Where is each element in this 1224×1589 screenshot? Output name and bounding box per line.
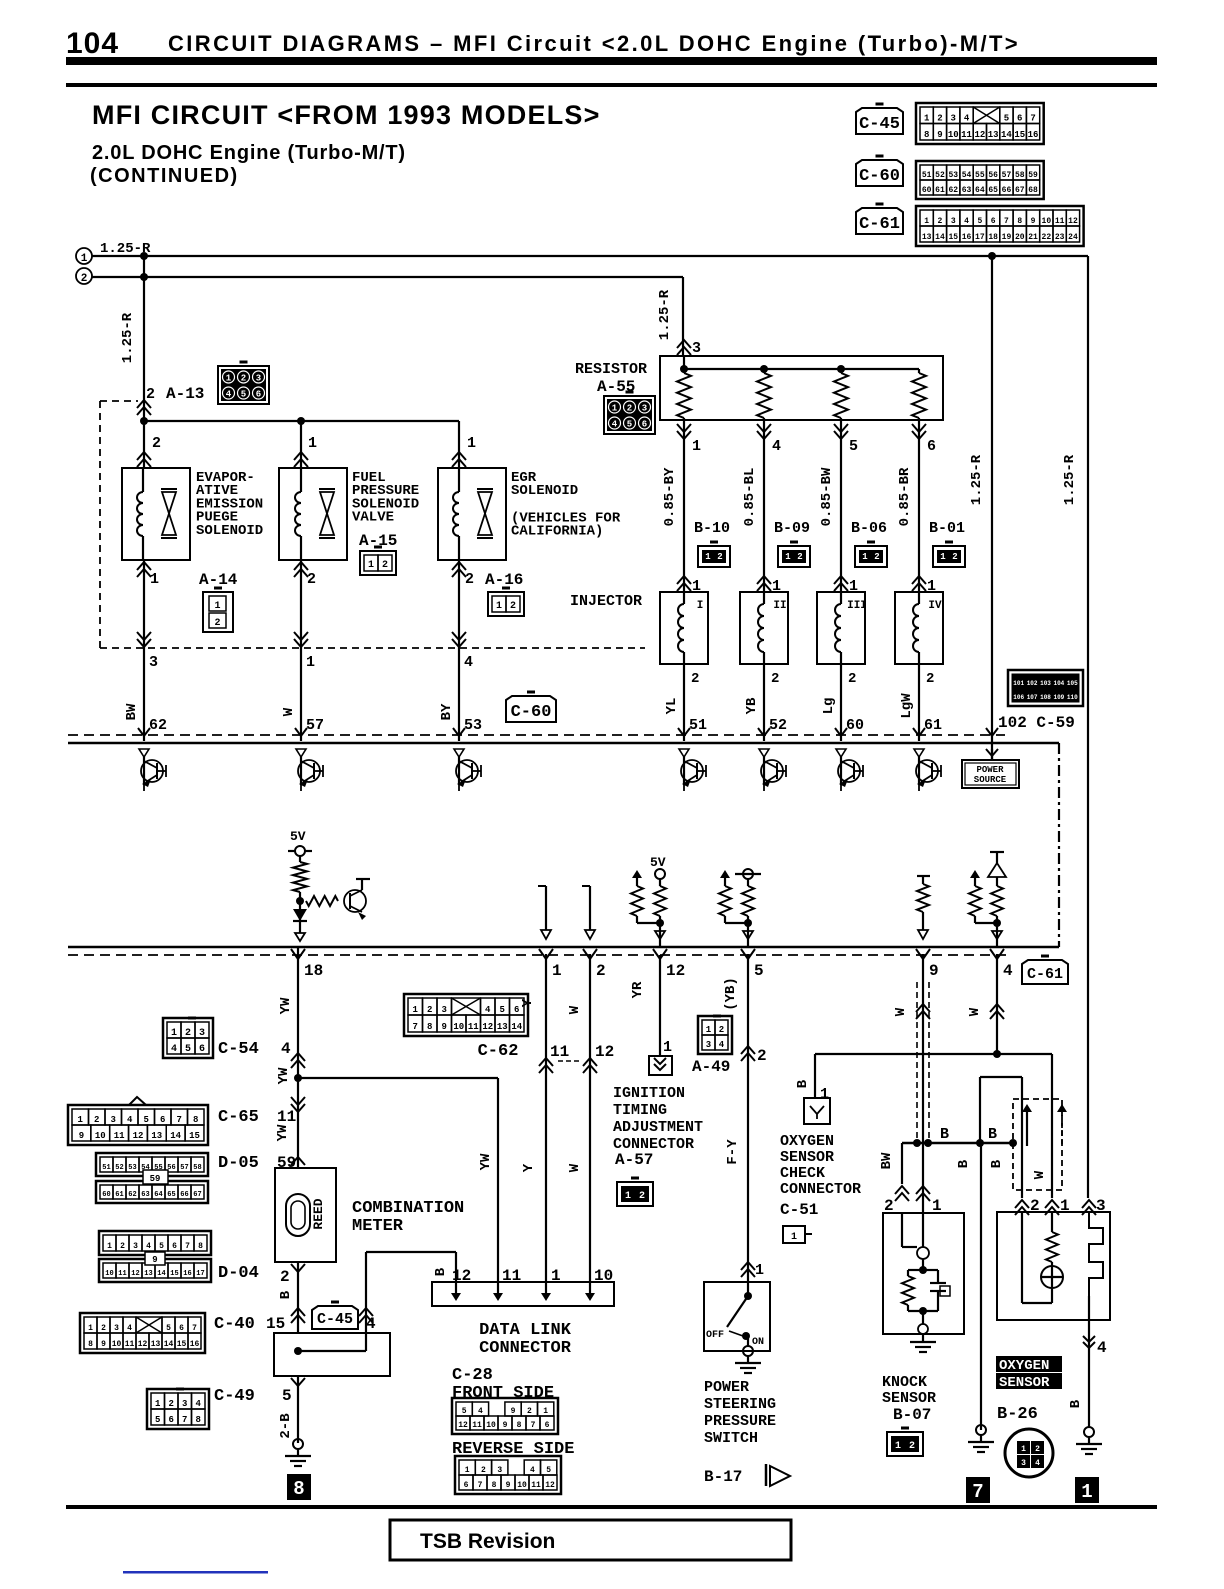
svg-text:1: 1: [924, 217, 929, 226]
svg-text:6: 6: [514, 1005, 519, 1015]
svg-text:16: 16: [962, 233, 972, 242]
svg-text:1: 1: [706, 1025, 712, 1035]
svg-text:SENSOR: SENSOR: [882, 1390, 936, 1407]
svg-text:2: 2: [639, 1191, 645, 1202]
svg-text:2: 2: [94, 1115, 99, 1125]
svg-text:B: B: [989, 1159, 1005, 1168]
svg-text:10: 10: [594, 1267, 613, 1285]
svg-text:CONNECTOR: CONNECTOR: [780, 1181, 861, 1198]
svg-text:B-06: B-06: [851, 520, 887, 537]
svg-text:LgW: LgW: [899, 693, 915, 719]
svg-text:A-57: A-57: [615, 1151, 653, 1169]
svg-text:10: 10: [1042, 217, 1052, 226]
svg-text:RESISTOR: RESISTOR: [575, 361, 647, 378]
svg-text:11: 11: [277, 1108, 296, 1126]
svg-text:2: 2: [101, 1324, 106, 1333]
svg-text:2-B: 2-B: [278, 1413, 294, 1439]
svg-text:1: 1: [496, 601, 502, 612]
svg-text:55: 55: [975, 171, 985, 180]
svg-text:CIRCUIT DIAGRAMS – MFI Circuit: CIRCUIT DIAGRAMS – MFI Circuit <2.0L DOH…: [168, 31, 1020, 56]
svg-text:10: 10: [517, 1481, 527, 1490]
svg-text:15: 15: [266, 1315, 285, 1333]
svg-text:1: 1: [214, 601, 220, 612]
svg-text:Y: Y: [520, 998, 536, 1007]
svg-text:2: 2: [510, 601, 516, 612]
svg-text:102 C-59: 102 C-59: [998, 714, 1075, 732]
svg-text:3: 3: [692, 340, 701, 357]
svg-text:59: 59: [277, 1154, 296, 1172]
svg-text:TSB Revision: TSB Revision: [420, 1530, 555, 1553]
svg-text:24: 24: [1068, 233, 1078, 242]
svg-text:2: 2: [146, 386, 155, 403]
svg-text:62: 62: [128, 1191, 136, 1199]
svg-text:0.85-BL: 0.85-BL: [742, 468, 758, 527]
svg-text:1: 1: [924, 114, 930, 124]
svg-text:2: 2: [938, 217, 943, 226]
svg-text:66: 66: [180, 1191, 188, 1199]
svg-text:11: 11: [468, 1022, 479, 1032]
svg-text:2: 2: [627, 404, 632, 414]
svg-text:2: 2: [848, 671, 856, 687]
svg-text:B: B: [988, 1126, 997, 1143]
svg-text:3: 3: [442, 1005, 447, 1015]
svg-text:6: 6: [991, 217, 996, 226]
svg-text:ADJUSTMENT: ADJUSTMENT: [613, 1119, 703, 1136]
svg-text:66: 66: [1002, 186, 1012, 195]
svg-text:57: 57: [180, 1164, 188, 1172]
svg-text:B: B: [278, 1290, 294, 1299]
svg-text:10: 10: [453, 1022, 464, 1032]
svg-text:4: 4: [964, 217, 969, 226]
svg-text:51: 51: [922, 171, 932, 180]
svg-text:1: 1: [785, 552, 791, 562]
svg-text:17: 17: [196, 1270, 204, 1278]
svg-text:3: 3: [951, 114, 956, 124]
svg-text:101: 101: [1013, 680, 1024, 687]
svg-text:0.85-BR: 0.85-BR: [897, 467, 913, 526]
svg-text:BW: BW: [124, 703, 140, 720]
svg-text:B-26: B-26: [997, 1405, 1038, 1424]
svg-text:1: 1: [895, 1441, 901, 1452]
svg-text:15: 15: [189, 1131, 200, 1141]
svg-text:59: 59: [150, 1174, 161, 1184]
svg-text:C-40: C-40: [214, 1315, 255, 1334]
svg-text:3: 3: [149, 654, 158, 671]
svg-text:C-60: C-60: [511, 703, 552, 722]
svg-text:1: 1: [612, 404, 618, 414]
svg-text:7: 7: [192, 1324, 197, 1333]
svg-text:DATA LINK: DATA LINK: [479, 1321, 572, 1340]
svg-text:109: 109: [1053, 694, 1064, 701]
svg-text:CONNECTOR: CONNECTOR: [479, 1339, 572, 1358]
svg-text:7: 7: [531, 1421, 536, 1430]
svg-text:IGNITION: IGNITION: [613, 1085, 685, 1102]
svg-text:1: 1: [155, 1399, 161, 1409]
svg-text:56: 56: [988, 171, 998, 180]
svg-text:BW: BW: [879, 1152, 895, 1169]
svg-text:2: 2: [952, 552, 957, 562]
svg-text:I: I: [697, 600, 704, 612]
svg-text:SOLENOID: SOLENOID: [196, 523, 263, 539]
svg-text:KNOCK: KNOCK: [882, 1374, 927, 1391]
svg-text:OXYGEN: OXYGEN: [780, 1133, 834, 1150]
svg-text:103: 103: [1040, 680, 1051, 687]
svg-text:B-09: B-09: [774, 520, 810, 537]
svg-text:106: 106: [1013, 694, 1024, 701]
svg-text:11: 11: [114, 1131, 125, 1141]
svg-text:B-10: B-10: [694, 520, 730, 537]
svg-text:10: 10: [105, 1270, 113, 1278]
svg-text:14: 14: [170, 1131, 181, 1141]
svg-text:11: 11: [1055, 217, 1065, 226]
svg-text:58: 58: [193, 1164, 201, 1172]
svg-text:POWER: POWER: [704, 1379, 749, 1396]
svg-text:5: 5: [155, 1415, 160, 1425]
svg-text:5: 5: [462, 1407, 467, 1416]
svg-text:18: 18: [304, 962, 323, 980]
svg-text:W: W: [967, 1007, 983, 1016]
svg-text:1: 1: [150, 571, 159, 588]
svg-text:53: 53: [464, 717, 482, 734]
svg-text:5V: 5V: [650, 855, 666, 870]
svg-text:1: 1: [107, 1242, 112, 1251]
svg-text:7: 7: [1004, 217, 1009, 226]
svg-text:2: 2: [307, 571, 316, 588]
svg-text:C-54: C-54: [218, 1040, 259, 1059]
svg-text:67: 67: [193, 1191, 201, 1199]
svg-text:B: B: [795, 1079, 811, 1088]
svg-text:W: W: [567, 1005, 583, 1014]
svg-text:3: 3: [133, 1242, 138, 1251]
svg-text:4: 4: [1035, 1459, 1040, 1468]
svg-text:1.25-R: 1.25-R: [657, 289, 673, 340]
svg-text:8: 8: [198, 1242, 203, 1251]
svg-text:12: 12: [595, 1043, 614, 1061]
svg-text:COMBINATION: COMBINATION: [352, 1199, 464, 1218]
svg-text:SOURCE: SOURCE: [974, 775, 1007, 785]
svg-text:11: 11: [472, 1421, 482, 1430]
svg-text:MFI CIRCUIT <FROM 1993 MODELS>: MFI CIRCUIT <FROM 1993 MODELS>: [92, 100, 601, 130]
svg-text:6: 6: [179, 1324, 184, 1333]
svg-text:4: 4: [146, 1242, 151, 1251]
svg-text:YW: YW: [276, 1067, 292, 1084]
svg-text:11: 11: [550, 1043, 569, 1061]
svg-text:110: 110: [1067, 694, 1078, 701]
svg-text:6: 6: [160, 1115, 165, 1125]
svg-text:METER: METER: [352, 1217, 404, 1236]
svg-text:1: 1: [467, 435, 476, 452]
svg-text:10: 10: [948, 130, 959, 140]
svg-text:1: 1: [308, 435, 317, 452]
svg-text:4: 4: [127, 1324, 132, 1333]
svg-text:14: 14: [157, 1270, 165, 1278]
svg-text:12: 12: [545, 1481, 555, 1490]
svg-text:W: W: [893, 1007, 909, 1016]
svg-text:107: 107: [1027, 694, 1038, 701]
svg-text:61: 61: [924, 717, 942, 734]
svg-text:6: 6: [256, 390, 261, 400]
svg-text:SWITCH: SWITCH: [704, 1430, 758, 1447]
svg-text:B: B: [940, 1126, 949, 1143]
svg-text:W: W: [567, 1163, 583, 1172]
svg-text:B-17: B-17: [704, 1468, 742, 1486]
svg-text:B-07: B-07: [893, 1406, 931, 1424]
svg-text:B-01: B-01: [929, 520, 965, 537]
svg-text:YW: YW: [478, 1153, 494, 1170]
svg-text:2: 2: [120, 1242, 125, 1251]
svg-text:7: 7: [185, 1242, 190, 1251]
svg-text:5: 5: [185, 1044, 191, 1055]
svg-text:53: 53: [948, 171, 958, 180]
svg-text:VALVE: VALVE: [352, 510, 394, 526]
svg-text:2: 2: [874, 552, 879, 562]
svg-text:SENSOR: SENSOR: [780, 1149, 834, 1166]
svg-text:12: 12: [131, 1270, 139, 1278]
svg-text:A-14: A-14: [199, 571, 238, 589]
svg-text:64: 64: [975, 186, 985, 195]
svg-text:13: 13: [144, 1270, 152, 1278]
svg-text:9: 9: [506, 1481, 511, 1490]
svg-text:2: 2: [691, 671, 699, 687]
svg-text:2: 2: [596, 962, 606, 980]
svg-text:13: 13: [988, 130, 999, 140]
svg-text:52: 52: [935, 171, 945, 180]
svg-text:7: 7: [413, 1022, 418, 1032]
svg-text:YB: YB: [744, 697, 760, 714]
svg-text:63: 63: [962, 186, 972, 195]
svg-text:20: 20: [1015, 233, 1025, 242]
svg-text:1: 1: [791, 1232, 797, 1243]
svg-text:63: 63: [141, 1191, 149, 1199]
svg-text:C-45: C-45: [317, 1311, 353, 1328]
svg-text:9: 9: [937, 130, 942, 140]
svg-text:10: 10: [486, 1421, 496, 1430]
svg-text:1: 1: [81, 253, 88, 265]
svg-text:C-28: C-28: [452, 1366, 493, 1385]
svg-text:58: 58: [1015, 171, 1025, 180]
svg-text:61: 61: [935, 186, 945, 195]
svg-text:15: 15: [177, 1340, 187, 1349]
svg-text:5: 5: [546, 1466, 551, 1475]
svg-text:7: 7: [478, 1481, 483, 1490]
svg-text:2: 2: [382, 560, 388, 571]
svg-text:4: 4: [1097, 1339, 1107, 1357]
svg-text:(CONTINUED): (CONTINUED): [90, 165, 239, 187]
svg-text:C-45: C-45: [859, 115, 900, 134]
svg-text:3: 3: [182, 1399, 187, 1409]
svg-text:1.25-R: 1.25-R: [1062, 454, 1078, 505]
svg-text:8: 8: [88, 1340, 93, 1349]
svg-text:III: III: [847, 600, 867, 612]
svg-text:YR: YR: [630, 981, 646, 998]
svg-text:OXYGEN: OXYGEN: [999, 1358, 1049, 1374]
svg-text:5: 5: [1004, 114, 1009, 124]
svg-text:12: 12: [666, 962, 685, 980]
svg-text:5: 5: [144, 1115, 149, 1125]
svg-text:SENSOR: SENSOR: [999, 1375, 1050, 1391]
svg-text:2: 2: [1035, 1445, 1040, 1454]
svg-text:9: 9: [442, 1022, 447, 1032]
svg-text:17: 17: [975, 233, 985, 242]
svg-text:61: 61: [115, 1191, 123, 1199]
svg-text:8: 8: [924, 130, 929, 140]
svg-text:3: 3: [256, 374, 261, 384]
svg-text:1: 1: [663, 1039, 672, 1056]
svg-text:2: 2: [926, 671, 934, 687]
svg-text:13: 13: [922, 233, 932, 242]
svg-text:6: 6: [927, 438, 936, 455]
svg-text:12: 12: [974, 130, 985, 140]
svg-text:REED: REED: [311, 1198, 326, 1229]
svg-text:2: 2: [797, 552, 802, 562]
svg-text:(YB): (YB): [723, 977, 739, 1011]
svg-text:2: 2: [427, 1005, 432, 1015]
svg-text:B: B: [956, 1159, 972, 1168]
svg-text:7: 7: [972, 1481, 983, 1503]
svg-text:8: 8: [492, 1481, 497, 1490]
svg-text:16: 16: [1028, 130, 1039, 140]
svg-text:3: 3: [497, 1466, 502, 1475]
svg-text:7: 7: [1030, 114, 1035, 124]
svg-text:A-16: A-16: [485, 571, 523, 589]
svg-text:6: 6: [199, 1044, 205, 1055]
svg-text:12: 12: [482, 1022, 493, 1032]
svg-text:67: 67: [1015, 186, 1025, 195]
svg-text:1: 1: [692, 438, 701, 455]
svg-text:B: B: [433, 1267, 449, 1276]
svg-text:14: 14: [1001, 130, 1012, 140]
svg-text:1: 1: [465, 1466, 470, 1475]
svg-text:6: 6: [545, 1421, 550, 1430]
svg-text:5: 5: [977, 217, 982, 226]
svg-text:C-60: C-60: [859, 167, 900, 186]
svg-text:7: 7: [182, 1415, 187, 1425]
svg-text:4: 4: [171, 1044, 177, 1055]
svg-text:57: 57: [306, 717, 324, 734]
svg-text:Y: Y: [521, 1163, 537, 1172]
svg-text:1: 1: [88, 1324, 93, 1333]
svg-text:12: 12: [1068, 217, 1078, 226]
svg-text:13: 13: [151, 1340, 161, 1349]
svg-text:16: 16: [190, 1340, 200, 1349]
svg-text:3: 3: [951, 217, 956, 226]
svg-text:8: 8: [427, 1022, 432, 1032]
svg-text:2: 2: [527, 1407, 532, 1416]
svg-text:YW: YW: [278, 997, 294, 1014]
svg-text:3: 3: [111, 1115, 116, 1125]
svg-text:2: 2: [937, 114, 942, 124]
svg-text:C-61: C-61: [1027, 966, 1063, 983]
svg-text:5V: 5V: [290, 829, 306, 844]
svg-text:5: 5: [627, 420, 632, 430]
svg-text:POWER: POWER: [976, 765, 1004, 775]
svg-text:ON: ON: [752, 1337, 764, 1348]
svg-text:21: 21: [1028, 233, 1038, 242]
svg-text:14: 14: [164, 1340, 174, 1349]
svg-text:1: 1: [78, 1115, 84, 1125]
svg-text:5: 5: [159, 1242, 164, 1251]
svg-text:23: 23: [1055, 233, 1065, 242]
svg-text:2: 2: [771, 671, 779, 687]
svg-text:60: 60: [846, 717, 864, 734]
svg-text:6: 6: [1017, 114, 1022, 124]
svg-text:YW: YW: [275, 1124, 291, 1141]
svg-text:INJECTOR: INJECTOR: [570, 593, 642, 610]
svg-text:D-05: D-05: [218, 1154, 259, 1173]
svg-text:11: 11: [125, 1340, 135, 1349]
svg-text:6: 6: [172, 1242, 177, 1251]
svg-text:51: 51: [689, 717, 707, 734]
svg-text:1: 1: [705, 552, 711, 562]
svg-text:13: 13: [151, 1131, 162, 1141]
svg-text:9: 9: [929, 962, 939, 980]
svg-text:4: 4: [1003, 962, 1013, 980]
svg-text:D-04: D-04: [218, 1264, 259, 1283]
svg-text:CALIFORNIA): CALIFORNIA): [511, 524, 603, 540]
svg-text:W: W: [281, 707, 297, 716]
svg-text:14: 14: [511, 1022, 522, 1032]
svg-text:16: 16: [183, 1270, 191, 1278]
svg-text:68: 68: [1028, 186, 1038, 195]
svg-text:C-49: C-49: [214, 1387, 255, 1406]
svg-text:62: 62: [948, 186, 958, 195]
svg-text:13: 13: [497, 1022, 508, 1032]
svg-text:1.25-R: 1.25-R: [120, 312, 136, 363]
svg-text:108: 108: [1040, 694, 1051, 701]
svg-text:2: 2: [152, 435, 161, 452]
svg-text:4: 4: [464, 654, 473, 671]
svg-text:1.25-R: 1.25-R: [969, 454, 985, 505]
svg-text:0.85-BY: 0.85-BY: [662, 467, 678, 526]
svg-text:52: 52: [769, 717, 787, 734]
svg-text:15: 15: [170, 1270, 178, 1278]
svg-text:4: 4: [196, 1399, 202, 1409]
svg-text:60: 60: [922, 186, 932, 195]
svg-text:4: 4: [226, 390, 232, 400]
svg-text:4: 4: [478, 1407, 483, 1416]
svg-text:6: 6: [464, 1481, 469, 1490]
svg-text:F-Y: F-Y: [725, 1139, 741, 1165]
svg-text:9: 9: [152, 1255, 157, 1265]
svg-text:A-13: A-13: [166, 385, 204, 403]
svg-text:1: 1: [413, 1005, 419, 1015]
svg-text:2: 2: [214, 618, 220, 629]
svg-text:IV: IV: [928, 600, 942, 612]
svg-text:SOLENOID: SOLENOID: [511, 483, 578, 499]
svg-text:102: 102: [1027, 680, 1038, 687]
svg-text:11: 11: [531, 1481, 541, 1490]
svg-text:5: 5: [754, 962, 764, 980]
svg-text:Lg: Lg: [821, 698, 837, 715]
svg-text:51: 51: [102, 1164, 110, 1172]
svg-text:1: 1: [306, 654, 315, 671]
svg-text:3: 3: [1021, 1459, 1026, 1468]
svg-text:3: 3: [114, 1324, 119, 1333]
svg-text:4: 4: [281, 1040, 291, 1058]
svg-text:18: 18: [988, 233, 998, 242]
svg-text:1: 1: [551, 1267, 561, 1285]
svg-text:2: 2: [280, 1268, 290, 1286]
svg-text:TIMING: TIMING: [613, 1102, 667, 1119]
svg-text:1: 1: [552, 962, 562, 980]
svg-text:2: 2: [241, 374, 246, 384]
svg-text:2.0L DOHC Engine (Turbo-M/T): 2.0L DOHC Engine (Turbo-M/T): [92, 142, 406, 164]
svg-text:10: 10: [112, 1340, 122, 1349]
svg-text:105: 105: [1067, 680, 1078, 687]
svg-text:1: 1: [543, 1407, 548, 1416]
svg-text:8: 8: [1017, 217, 1022, 226]
svg-text:9: 9: [1031, 217, 1036, 226]
